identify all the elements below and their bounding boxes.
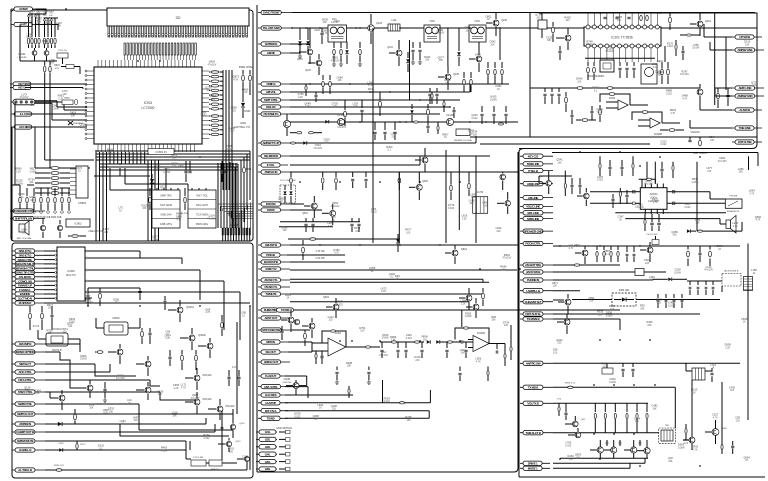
svg-text:103: 103 <box>565 19 570 22</box>
svg-text:TX/MUTE: TX/MUTE <box>265 292 276 296</box>
svg-text:0.022: 0.022 <box>204 437 211 440</box>
svg-text:AM IF OUT: AM IF OUT <box>265 316 278 320</box>
svg-text:100: 100 <box>483 204 488 207</box>
vertical bus right of resistor array <box>222 70 224 190</box>
remote dashed box <box>722 274 741 287</box>
svg-text:33K: 33K <box>71 114 76 117</box>
svg-text:IC601: IC601 <box>335 332 342 335</box>
svg-text:0.022: 0.022 <box>667 45 674 48</box>
svg-text:LC72500: LC72500 <box>142 106 155 110</box>
svg-text:220: 220 <box>497 230 502 233</box>
svg-text:1K: 1K <box>745 459 748 462</box>
svg-text:1/16W: 1/16W <box>678 446 686 449</box>
svg-text:JACK/GUIDE B: JACK/GUIDE B <box>724 270 739 273</box>
svg-text:10K: 10K <box>323 21 328 24</box>
resistor array right of IC901 <box>211 71 219 74</box>
svg-text:1/16W: 1/16W <box>151 238 159 241</box>
svg-text:33K: 33K <box>206 89 211 92</box>
svg-text:GND: GND <box>240 121 246 125</box>
svg-text:103: 103 <box>332 408 337 411</box>
FM osc ceramic dashed box <box>280 185 296 203</box>
net label KEYBOARD <box>10 210 45 212</box>
svg-text:10K: 10K <box>745 43 750 46</box>
row 300 caps group <box>657 294 659 298</box>
svg-text:C C: C C <box>232 366 236 369</box>
left edge net labels panel A <box>11 8 39 10</box>
IC401 output caps <box>644 219 646 224</box>
wire ACC <box>26 126 87 128</box>
long verticals panel C top <box>372 28 374 100</box>
svg-text:0.022: 0.022 <box>666 92 673 95</box>
bottom rail output <box>560 457 648 459</box>
row 239 line <box>288 238 399 240</box>
svg-text:47K: 47K <box>55 68 59 70</box>
T5 coil top right <box>692 368 705 380</box>
svg-text:DKG GOH: DKG GOH <box>196 204 208 207</box>
svg-text:IC201 TX 9536: IC201 TX 9536 <box>611 36 633 40</box>
svg-text:2.2K: 2.2K <box>58 97 63 100</box>
svg-text:33K: 33K <box>547 39 552 42</box>
svg-text:0.022: 0.022 <box>587 43 594 46</box>
svg-text:Q106: Q106 <box>501 19 508 22</box>
svg-text:Q451: Q451 <box>574 244 581 247</box>
row 386 line <box>285 386 308 388</box>
panel D border (audio/output board) <box>519 149 752 478</box>
svg-text:100: 100 <box>37 20 42 23</box>
capacitor C301 <box>163 301 166 303</box>
svg-text:2.2K: 2.2K <box>23 25 28 28</box>
row 246 line and parts <box>553 245 740 247</box>
capacitor C245 <box>221 427 224 429</box>
svg-text:ANT / CTRL: ANT / CTRL <box>264 385 278 389</box>
transistor Q901 <box>32 51 37 56</box>
vertical bus right side bottom <box>217 163 219 228</box>
transistor Q503 <box>416 184 422 190</box>
vertical drops TX <box>529 13 531 137</box>
rail lower mid <box>290 164 420 166</box>
svg-text:33K: 33K <box>491 319 496 322</box>
svg-text:100: 100 <box>50 62 55 65</box>
transistor Q306 <box>217 406 223 412</box>
rail top of analog section panel B <box>44 302 250 304</box>
caps between output transistors <box>606 442 609 444</box>
mid components row y70-95 <box>322 75 324 80</box>
parts row above IC401 <box>599 163 601 168</box>
diode D451 <box>668 278 672 282</box>
row 402.8 long line <box>285 402 430 404</box>
left net labels panel C upper <box>258 43 290 45</box>
svg-text:IC202B: IC202B <box>654 133 662 136</box>
svg-text:FM S2 CTL: FM S2 CTL <box>264 285 277 289</box>
row 363 stubs <box>622 363 624 367</box>
IC901 top pins <box>97 60 99 67</box>
row 246 hanging parts <box>596 246 598 250</box>
transistor Q206 <box>59 395 65 401</box>
transistor Q903 <box>40 225 45 230</box>
svg-text:X3001: X3001 <box>112 316 120 320</box>
svg-text:47u/16V: 47u/16V <box>680 73 689 76</box>
box X204 <box>191 460 206 466</box>
svg-text:10K: 10K <box>347 365 352 368</box>
svg-text:D452 LED: D452 LED <box>619 290 630 292</box>
svg-text:MAIN: MAIN <box>64 97 70 100</box>
svg-text:IC902: IC902 <box>75 222 82 226</box>
parts on control rails C <box>305 86 307 91</box>
resistor R615 <box>447 341 452 343</box>
svg-text:4.7K: 4.7K <box>568 247 573 250</box>
wires to right labels <box>704 36 732 38</box>
svg-text:AF/C CTRL: AF/C CTRL <box>18 370 32 374</box>
svg-text:33K: 33K <box>35 392 40 395</box>
svg-text:220: 220 <box>557 342 562 345</box>
svg-text:E VOL: E VOL <box>267 163 275 167</box>
row 363 line <box>553 362 740 364</box>
resistors right of can <box>661 69 664 75</box>
svg-text:33K: 33K <box>425 59 430 62</box>
diode D106 <box>410 110 414 114</box>
svg-text:GNB U/HG: GNB U/HG <box>160 223 172 226</box>
svg-text:DWN GRG: DWN GRG <box>196 223 208 226</box>
svg-text:0.022: 0.022 <box>684 206 691 209</box>
wire bundle connector to IC901 comb <box>124 43 126 55</box>
transistor Q462 big <box>712 429 719 436</box>
svg-text:CN903: CN903 <box>230 224 238 227</box>
svg-text:220: 220 <box>392 135 397 138</box>
row 245 components <box>290 244 518 246</box>
svg-text:47u/16V: 47u/16V <box>435 32 444 35</box>
wire ILL <box>26 113 87 115</box>
svg-text:220: 220 <box>232 110 237 113</box>
svg-text:Q501: Q501 <box>302 213 308 215</box>
svg-text:47u/16V: 47u/16V <box>337 126 346 129</box>
svg-text:0.022: 0.022 <box>201 114 208 117</box>
transistor Q205 <box>87 385 93 391</box>
svg-text:AM/C LINE: AM/C LINE <box>739 86 752 90</box>
svg-text:100: 100 <box>229 450 234 453</box>
panel C border (tuner/IF board) <box>256 5 258 472</box>
IC401 audio amp body <box>640 188 667 210</box>
svg-text:100: 100 <box>324 141 329 144</box>
svg-text:SWITCH OUT: SWITCH OUT <box>17 412 33 416</box>
svg-text:100: 100 <box>501 268 506 271</box>
svg-text:CF101: CF101 <box>337 114 345 117</box>
IC202 left pins and net labels <box>12 250 44 252</box>
svg-text:47u/16V: 47u/16V <box>207 218 216 221</box>
polar cap C941 <box>68 121 73 125</box>
svg-text:MPX IN: MPX IN <box>266 340 275 344</box>
speaker wires <box>615 212 726 214</box>
svg-text:KRC110: KRC110 <box>203 398 213 401</box>
svg-text:1K: 1K <box>119 209 122 212</box>
svg-text:4.7K: 4.7K <box>233 78 238 81</box>
resistor R301 <box>221 322 224 328</box>
svg-text:2.2K: 2.2K <box>298 96 303 99</box>
svg-text:220: 220 <box>645 262 650 265</box>
svg-text:2.2K: 2.2K <box>243 91 248 94</box>
wire to caps cluster <box>721 286 723 292</box>
transistor Q211 <box>226 441 231 446</box>
svg-text:SPEAKER GND: SPEAKER GND <box>524 229 544 233</box>
net labels panel C lower-2 <box>258 329 292 331</box>
svg-text:4.7K: 4.7K <box>755 219 760 222</box>
diode D610 <box>427 340 431 344</box>
svg-text:7M/Y 7/GL: 7M/Y 7/GL <box>196 195 209 198</box>
row 265 line <box>553 264 620 266</box>
svg-text:1/16W: 1/16W <box>163 171 171 174</box>
row 272 line <box>553 271 635 273</box>
key matrix group 1 wires <box>28 14 30 37</box>
svg-text:1K: 1K <box>396 278 399 281</box>
svg-text:1K: 1K <box>487 18 490 21</box>
transistor Q101 <box>307 49 313 55</box>
svg-text:33K: 33K <box>473 133 478 136</box>
svg-text:103: 103 <box>19 196 24 199</box>
svg-text:1/16W: 1/16W <box>80 358 88 361</box>
capacitor C224 <box>168 357 171 359</box>
svg-text:1/16W: 1/16W <box>161 449 169 452</box>
small box R933 <box>66 65 74 69</box>
resistor R150 <box>427 109 430 115</box>
connector CN901 pin comb <box>108 26 110 37</box>
svg-text:PALM/B VOLUME: PALM/B VOLUME <box>454 139 472 142</box>
right side resistor pair <box>717 93 720 99</box>
svg-text:2.2K: 2.2K <box>381 290 386 293</box>
svg-text:G/4L: G/4L <box>265 452 271 456</box>
svg-text:220: 220 <box>470 202 475 205</box>
transistor Q904 <box>57 225 62 230</box>
second bus group <box>100 163 238 165</box>
svg-text:2.2K RD: 2.2K RD <box>315 257 324 260</box>
row 290 line <box>553 290 580 292</box>
diode D201 <box>58 422 62 426</box>
diode D160 on mixer row <box>325 120 329 124</box>
svg-text:Q3002: Q3002 <box>198 334 206 337</box>
svg-text:SW/T CTRL: SW/T CTRL <box>264 98 278 102</box>
svg-text:RX/B LINE: RX/B LINE <box>527 162 539 166</box>
svg-text:Q602: Q602 <box>323 296 330 299</box>
svg-text:1K: 1K <box>743 321 746 324</box>
svg-text:Q104: Q104 <box>387 47 393 49</box>
row 280-294 lines <box>290 278 483 280</box>
svg-text:1/16W: 1/16W <box>52 107 60 110</box>
svg-text:CABMT OUT B: CABMT OUT B <box>16 430 35 434</box>
connector CN451 <box>744 277 753 291</box>
transistor Q402 <box>583 193 589 199</box>
svg-text:X201 CR/SMPL: X201 CR/SMPL <box>588 75 606 78</box>
resistor R302 <box>195 355 198 361</box>
tuning can T102 <box>424 25 440 42</box>
filter box T/BB <box>635 269 644 276</box>
long verticals FM section <box>398 172 400 243</box>
net label DRIVE1 <box>520 462 550 464</box>
vertical feeds IC401 <box>654 162 656 184</box>
svg-text:MODE 1: MODE 1 <box>528 467 538 471</box>
rail FM section stubs <box>290 172 292 177</box>
transistor Q203 <box>117 349 123 355</box>
parts on bottom rail TX <box>669 129 675 132</box>
comb connector bottom right <box>222 228 224 235</box>
svg-text:MONO OPTION: MONO OPTION <box>16 350 35 354</box>
transistor Q452 <box>647 247 653 253</box>
svg-text:AM RF: AM RF <box>267 51 275 55</box>
left parts row 403 <box>558 407 560 412</box>
vertical connector block <box>76 166 88 198</box>
svg-text:AM/SW GND: AM/SW GND <box>737 94 753 98</box>
svg-text:CONN IN: CONN IN <box>156 150 167 154</box>
top rail wire <box>292 12 755 14</box>
svg-text:DRIVE 1: DRIVE 1 <box>528 462 538 466</box>
net label M-OPEN <box>12 302 44 304</box>
vertical bus from IC901 bottom <box>109 152 111 164</box>
wire SIG METER corner <box>290 155 476 157</box>
svg-text:103: 103 <box>650 279 655 282</box>
svg-text:PHONE: PHONE <box>730 196 738 198</box>
bus verticals right <box>249 151 251 200</box>
hanging parts on RF rail <box>299 28 301 40</box>
svg-text:TEL ANT GND: TEL ANT GND <box>263 26 281 30</box>
svg-text:103: 103 <box>156 167 161 170</box>
output parts <box>496 350 498 353</box>
diode D101 <box>298 41 302 45</box>
transistor Q601 <box>452 250 458 256</box>
FM discr cluster <box>344 100 346 110</box>
svg-text:4.7K: 4.7K <box>323 32 328 35</box>
resistor C/D2 <box>685 428 687 433</box>
svg-text:33K: 33K <box>647 324 652 327</box>
svg-text:10K: 10K <box>89 406 94 409</box>
svg-text:1/78 4.5M: 1/78 4.5M <box>193 457 203 459</box>
svg-text:47u/16V: 47u/16V <box>718 160 727 163</box>
long control rails <box>290 83 509 85</box>
svg-text:10K: 10K <box>353 105 358 108</box>
bus label <box>148 149 174 155</box>
transistor Q303 <box>207 343 213 349</box>
row 410.7 long line <box>285 410 429 412</box>
varactor can M201 <box>641 64 657 84</box>
partial rails FM <box>280 221 360 223</box>
bottom stubs group <box>336 367 338 371</box>
wire from ANT label <box>290 43 310 45</box>
transistor Q104 <box>396 50 402 56</box>
row 255 line <box>287 254 345 256</box>
svg-text:0.022: 0.022 <box>371 211 378 214</box>
svg-text:103: 103 <box>282 229 287 232</box>
svg-text:R951 R952: R951 R952 <box>239 65 254 69</box>
transistor Q202 <box>697 89 703 95</box>
transistor Q455 <box>572 421 578 427</box>
svg-text:Q201: Q201 <box>705 20 712 23</box>
svg-text:P/CON CTRL: P/CON CTRL <box>525 242 541 246</box>
svg-text:103: 103 <box>577 80 582 83</box>
transistor Q456 <box>575 432 581 438</box>
net labels right panel mid <box>520 243 553 245</box>
svg-text:220: 220 <box>63 331 68 334</box>
svg-text:47u/16V: 47u/16V <box>635 206 644 209</box>
resistor chain left <box>29 313 32 319</box>
transistor Q302 <box>189 335 195 341</box>
resistor R961 <box>243 167 246 173</box>
transistor Q453 <box>565 299 571 305</box>
diode D611 <box>436 340 440 344</box>
svg-text:103: 103 <box>736 420 741 423</box>
op-amp IC601b <box>473 335 489 351</box>
svg-text:47u/16V: 47u/16V <box>379 354 388 357</box>
svg-text:100: 100 <box>48 332 53 335</box>
svg-text:G/6L: G/6L <box>265 467 271 471</box>
row 231 parts <box>687 229 691 233</box>
svg-text:IC202: IC202 <box>67 269 75 273</box>
transistor Q505 <box>505 200 511 206</box>
svg-text:33K: 33K <box>211 98 216 101</box>
svg-text:Q211: Q211 <box>235 441 241 443</box>
diode D902 <box>150 179 154 183</box>
svg-text:103: 103 <box>466 30 471 33</box>
IC202 right pins <box>85 250 92 252</box>
right edge vertical panel B <box>221 409 223 460</box>
mixer bias parts <box>374 122 376 130</box>
resistor R551 <box>450 185 453 191</box>
caps under chain <box>381 342 383 348</box>
svg-text:4700/16V: 4700/16V <box>283 382 293 384</box>
transistor Q102 <box>316 60 322 66</box>
resistor pair under mixer <box>297 132 302 134</box>
svg-text:10K: 10K <box>557 161 562 164</box>
svg-text:0.022: 0.022 <box>406 337 413 340</box>
svg-text:ANT/SW B: ANT/SW B <box>265 42 279 46</box>
transistor Q105 <box>445 74 451 80</box>
svg-text:D901: D901 <box>244 109 251 113</box>
capacitor C880 <box>731 446 734 448</box>
svg-text:10K: 10K <box>338 79 343 82</box>
svg-text:1K: 1K <box>371 270 374 273</box>
wires IC401 to jack <box>672 191 710 193</box>
resistor R941 <box>74 99 77 104</box>
inductor L101 <box>388 24 400 31</box>
svg-text:100: 100 <box>439 59 444 62</box>
svg-text:0.022: 0.022 <box>597 179 604 182</box>
connector pill 4p <box>11 101 13 103</box>
svg-text:IC202: IC202 <box>609 97 616 100</box>
bottom cluster wires <box>186 458 191 460</box>
svg-text:TX M/2 B: TX M/2 B <box>528 386 539 390</box>
svg-text:0.022: 0.022 <box>472 117 479 120</box>
svg-text:SLCT MO N: SLCT MO N <box>18 297 32 301</box>
svg-text:VOL/TX B: VOL/TX B <box>527 402 540 406</box>
svg-text:1K: 1K <box>619 218 622 221</box>
svg-text:47u/16V: 47u/16V <box>116 377 125 380</box>
top rail right section <box>540 12 757 14</box>
svg-text:2.2K: 2.2K <box>725 346 730 349</box>
row 387 line <box>553 386 675 388</box>
resistor bank output stage <box>594 403 596 412</box>
svg-text:AM/SW LINE: AM/SW LINE <box>737 48 752 52</box>
svg-text:AM/CH OUT: AM/CH OUT <box>264 360 279 364</box>
diode D501 <box>283 191 286 194</box>
svg-text:4.7K: 4.7K <box>328 225 333 228</box>
resistor R951 <box>242 75 245 81</box>
row 418.3 long line <box>285 417 429 419</box>
svg-text:33K: 33K <box>445 82 450 85</box>
svg-text:LIGHTING CTL: LIGHTING CTL <box>234 126 251 129</box>
top rail right panel <box>552 152 758 154</box>
staircase wires to comb <box>233 218 235 228</box>
svg-text:7/CX MOH: 7/CX MOH <box>196 214 208 217</box>
svg-text:2.2K: 2.2K <box>16 171 21 174</box>
left net labels lower panel B <box>12 343 45 345</box>
wire staircase to right stack <box>95 364 136 376</box>
svg-text:G/2L: G/2L <box>265 438 271 442</box>
caps cluster row 287 <box>689 281 691 285</box>
